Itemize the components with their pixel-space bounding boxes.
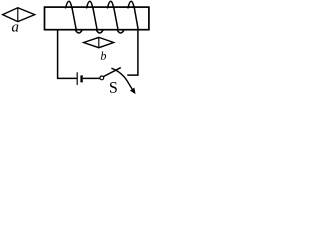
label b: [101, 51, 106, 59]
compass a: [3, 8, 35, 22]
coil turn 4: [128, 1, 138, 29]
switch blade: [104, 68, 121, 77]
solenoid core: [45, 7, 149, 30]
coil turn 2: [86, 1, 103, 33]
closing-direction arrow: [111, 68, 132, 89]
compass b: [84, 37, 114, 47]
coil turn 1: [66, 1, 83, 33]
label S: [110, 82, 117, 93]
battery short plate: [80, 75, 82, 82]
switch pivot: [100, 76, 104, 80]
coil turn 3: [107, 1, 124, 33]
label a: [12, 24, 18, 31]
left coil lead + bottom wire: [58, 30, 77, 79]
battery long plate: [76, 72, 78, 85]
switch contact + right coil lead: [127, 29, 138, 75]
wire battery to switch: [83, 77, 100, 79]
